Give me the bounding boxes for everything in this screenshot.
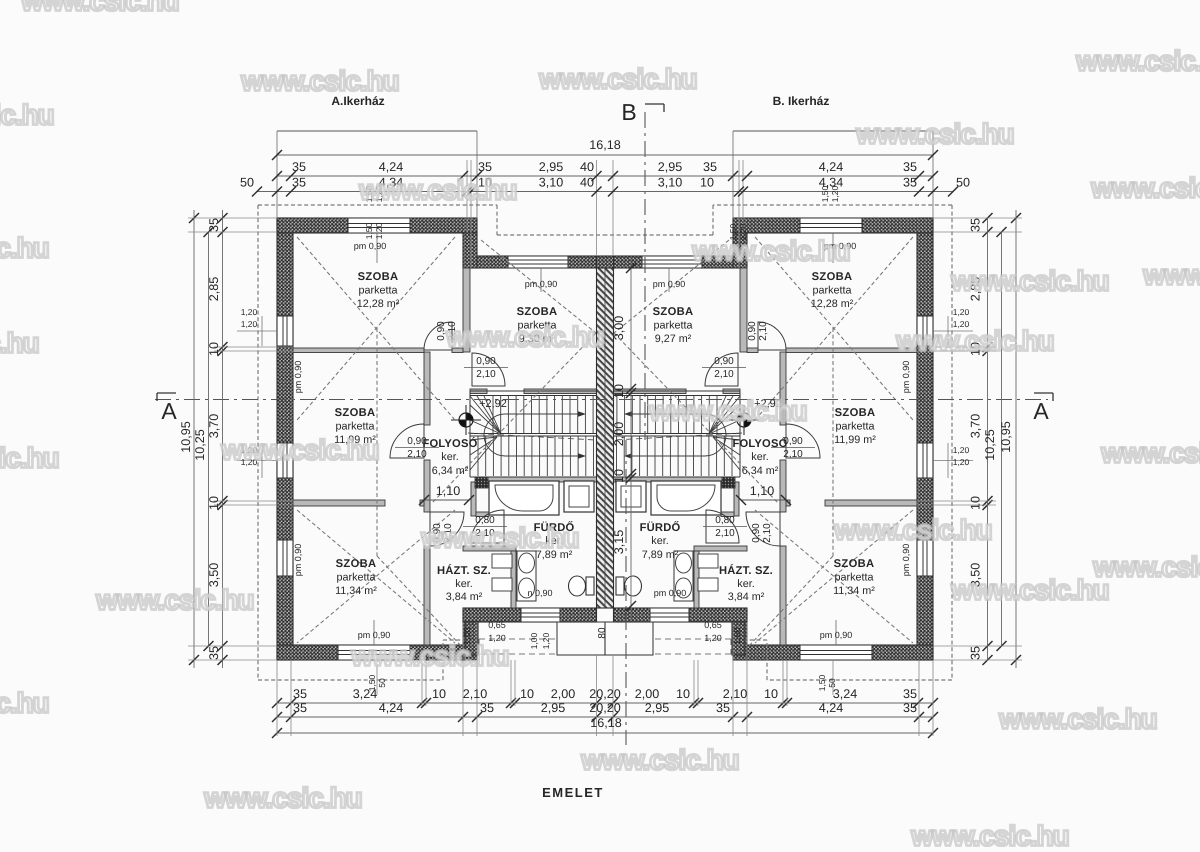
svg-text:www.csic.hu: www.csic.hu	[950, 265, 1109, 296]
svg-text:12,28 m²: 12,28 m²	[357, 298, 400, 310]
svg-text:10,95: 10,95	[999, 421, 1013, 453]
svg-text:FÜRDŐ: FÜRDŐ	[640, 521, 681, 534]
svg-text:n 0,90: n 0,90	[527, 588, 552, 598]
right dimension columns	[987, 218, 989, 660]
svg-text:pm 0,90: pm 0,90	[354, 241, 387, 251]
roof overhang dashed	[258, 204, 497, 206]
svg-text:1,20: 1,20	[374, 222, 384, 239]
svg-text:35: 35	[480, 701, 494, 715]
svg-text:1,20: 1,20	[830, 185, 840, 202]
svg-text:20,20: 20,20	[589, 701, 621, 715]
svg-text:www.csic.hu: www.csic.hu	[950, 574, 1109, 605]
svg-text:3,10: 3,10	[539, 176, 564, 190]
svg-text:35: 35	[903, 687, 917, 701]
svg-text:10: 10	[700, 176, 714, 190]
svg-text:1,20: 1,20	[241, 319, 258, 329]
svg-text:www.csic.hu: www.csic.hu	[20, 0, 179, 16]
svg-text:3,15: 3,15	[612, 530, 626, 555]
svg-text:1,20: 1,20	[953, 307, 970, 317]
svg-text:10: 10	[676, 687, 690, 701]
svg-text:1,00: 1,00	[732, 627, 742, 645]
svg-text:www.csic.hu: www.csic.hu	[420, 522, 579, 553]
svg-text:2,10: 2,10	[476, 369, 496, 380]
svg-text:www.csic.hu: www.csic.hu	[0, 442, 59, 473]
svg-text:FOLYOSÓ: FOLYOSÓ	[422, 437, 477, 450]
svg-text:SZOBA: SZOBA	[335, 407, 376, 419]
svg-text:2,10: 2,10	[783, 449, 803, 460]
svg-text:3,10: 3,10	[658, 176, 683, 190]
svg-text:50: 50	[377, 678, 387, 688]
svg-text:www.csic.hu: www.csic.hu	[998, 703, 1157, 734]
svg-text:3,84 m²: 3,84 m²	[446, 591, 483, 603]
svg-text:10: 10	[207, 496, 221, 510]
svg-text:4,24: 4,24	[379, 701, 404, 715]
svg-text:80: 80	[597, 627, 608, 639]
svg-text:35: 35	[969, 218, 983, 232]
svg-text:35: 35	[716, 701, 730, 715]
svg-text:2,00: 2,00	[635, 687, 660, 701]
svg-text:6,34 m²: 6,34 m²	[742, 465, 779, 477]
svg-text:pm 0,90: pm 0,90	[901, 544, 911, 577]
svg-text:1,50: 1,50	[367, 674, 377, 691]
svg-text:HÁZT. SZ.: HÁZT. SZ.	[437, 564, 491, 577]
svg-text:B. Ikerház: B. Ikerház	[773, 94, 830, 108]
svg-text:FOLYOSÓ: FOLYOSÓ	[732, 437, 787, 450]
svg-text:A: A	[161, 398, 177, 424]
svg-text:parketta: parketta	[336, 572, 375, 584]
svg-text:B: B	[621, 99, 636, 125]
svg-text:parketta: parketta	[335, 421, 374, 433]
svg-text:9,27 m²: 9,27 m²	[655, 333, 692, 345]
svg-text:www.csic.hu: www.csic.hu	[0, 232, 49, 263]
svg-text:10: 10	[432, 687, 446, 701]
svg-text:10,25: 10,25	[983, 429, 997, 461]
svg-text:0,65: 0,65	[488, 620, 506, 630]
left dimension columns	[222, 210, 224, 668]
svg-text:www.csic.hu: www.csic.hu	[910, 820, 1069, 847]
svg-text:www.csic.hu: www.csic.hu	[1090, 172, 1200, 203]
B section line	[644, 112, 646, 440]
svg-text:10: 10	[612, 469, 626, 483]
svg-text:ker.: ker.	[651, 535, 668, 547]
svg-text:EMELET: EMELET	[542, 785, 604, 800]
terrace	[557, 622, 605, 655]
doors house A	[424, 322, 452, 350]
toilet	[569, 576, 586, 596]
party wall	[597, 256, 614, 268]
svg-text:2,00: 2,00	[612, 422, 626, 447]
svg-text:www.csic.hu: www.csic.hu	[691, 235, 850, 266]
top extension boxes	[277, 130, 477, 132]
svg-text:www.csic.hu: www.csic.hu	[445, 321, 604, 352]
svg-text:10: 10	[207, 342, 221, 356]
svg-text:35: 35	[207, 646, 221, 660]
svg-text:www.csic.hu: www.csic.hu	[895, 325, 1054, 356]
svg-text:1,50: 1,50	[364, 222, 374, 239]
svg-text:A: A	[1033, 398, 1049, 424]
svg-text:35: 35	[292, 160, 306, 174]
svg-text:www.csic.hu: www.csic.hu	[538, 63, 697, 94]
svg-text:11,99 m²: 11,99 m²	[834, 434, 876, 446]
svg-text:parketta: parketta	[358, 285, 397, 297]
svg-text:20,20: 20,20	[589, 687, 621, 701]
interior dimension chain	[630, 256, 632, 620]
svg-text:2,10: 2,10	[762, 523, 773, 543]
svg-text:parketta: parketta	[653, 320, 692, 332]
svg-text:50: 50	[956, 176, 970, 190]
svg-text:1,50: 1,50	[817, 674, 827, 691]
level mark	[459, 413, 473, 427]
svg-text:10: 10	[612, 384, 626, 398]
svg-text:ker.: ker.	[441, 451, 458, 463]
svg-text:2,95: 2,95	[539, 160, 564, 174]
svg-text:35: 35	[903, 701, 917, 715]
svg-text:2,95: 2,95	[645, 701, 670, 715]
svg-text:50: 50	[827, 678, 837, 688]
svg-text:SZOBA: SZOBA	[653, 306, 694, 318]
svg-text:ker.: ker.	[455, 578, 472, 590]
svg-text:www.csic.hu: www.csic.hu	[580, 744, 739, 775]
shower	[564, 481, 594, 512]
windows house A	[348, 217, 410, 233]
svg-text:2,10: 2,10	[463, 687, 488, 701]
svg-text:1,20: 1,20	[241, 307, 258, 317]
svg-text:www.csic.hu: www.csic.hu	[0, 99, 54, 130]
svg-text:35: 35	[292, 176, 306, 190]
svg-text:2,10: 2,10	[758, 321, 769, 341]
svg-text:35: 35	[293, 701, 307, 715]
svg-text:pm 0,90: pm 0,90	[654, 588, 687, 598]
svg-text:10,25: 10,25	[193, 429, 207, 461]
svg-text:7,89 m²: 7,89 m²	[642, 549, 679, 561]
svg-text:2,10: 2,10	[723, 687, 748, 701]
bathtub	[489, 481, 559, 515]
svg-text:parketta: parketta	[812, 285, 851, 297]
svg-text:0,90: 0,90	[751, 523, 762, 543]
svg-text:1,50: 1,50	[820, 185, 830, 202]
svg-text:50: 50	[240, 176, 254, 190]
svg-text:2,95: 2,95	[541, 701, 566, 715]
svg-text:3,24: 3,24	[833, 687, 858, 701]
svg-text:pm 0,90: pm 0,90	[358, 630, 391, 640]
svg-text:SZOBA: SZOBA	[812, 271, 853, 283]
svg-text:www.csic.hu: www.csic.hu	[855, 118, 1014, 149]
A section line	[155, 399, 1048, 401]
svg-text:SZOBA: SZOBA	[834, 558, 875, 570]
svg-text:35: 35	[293, 687, 307, 701]
svg-text:2,85: 2,85	[207, 277, 221, 302]
roof hips	[297, 237, 455, 420]
interior partitions house A	[293, 348, 424, 353]
svg-text:0,90: 0,90	[407, 436, 427, 447]
svg-text:3,00: 3,00	[612, 316, 626, 341]
svg-text:www.csic.hu: www.csic.hu	[1142, 259, 1200, 290]
svg-text:www.csic.hu: www.csic.hu	[1100, 437, 1200, 468]
svg-text:www.csic.hu: www.csic.hu	[0, 687, 49, 718]
svg-text:6,34 m²: 6,34 m²	[432, 465, 469, 477]
svg-text:www.csic.hu: www.csic.hu	[350, 640, 509, 671]
svg-text:16,18: 16,18	[590, 716, 622, 730]
svg-text:www.csic.hu: www.csic.hu	[240, 65, 399, 96]
svg-text:10,95: 10,95	[179, 421, 193, 453]
exterior walls house A	[277, 218, 293, 660]
top dimension rows	[277, 154, 933, 156]
svg-text:2,00: 2,00	[551, 687, 576, 701]
svg-text:1,20: 1,20	[953, 457, 970, 467]
svg-text:35: 35	[207, 218, 221, 232]
svg-text:www.csic.hu: www.csic.hu	[95, 584, 254, 615]
svg-text:www.csic.hu: www.csic.hu	[1075, 45, 1200, 76]
svg-text:0,90: 0,90	[714, 356, 734, 367]
svg-text:parketta: parketta	[835, 421, 874, 433]
svg-text:SZOBA: SZOBA	[517, 306, 558, 318]
svg-text:www.csic.hu: www.csic.hu	[648, 395, 807, 426]
svg-text:2,10: 2,10	[715, 528, 735, 539]
svg-text:3,70: 3,70	[207, 414, 221, 439]
svg-text:pm 0,90: pm 0,90	[525, 279, 558, 289]
svg-text:12,28 m²: 12,28 m²	[811, 298, 854, 310]
svg-text:www.csic.hu: www.csic.hu	[833, 514, 992, 545]
svg-text:1,20: 1,20	[541, 632, 551, 649]
svg-text:10: 10	[764, 687, 778, 701]
svg-text:1,20: 1,20	[953, 445, 970, 455]
svg-text:35: 35	[969, 646, 983, 660]
svg-text:SZOBA: SZOBA	[835, 407, 876, 419]
svg-text:ker.: ker.	[751, 451, 768, 463]
svg-text:16,18: 16,18	[589, 138, 621, 152]
svg-text:40: 40	[580, 176, 594, 190]
svg-text:11,34 m²: 11,34 m²	[335, 585, 377, 597]
svg-text:35: 35	[903, 160, 917, 174]
svg-text:11,34 m²: 11,34 m²	[833, 585, 875, 597]
stair house A	[492, 396, 494, 433]
svg-text:www.csic.hu: www.csic.hu	[0, 327, 39, 358]
svg-text:parketta: parketta	[834, 572, 873, 584]
bottom dimension rows	[277, 702, 933, 704]
svg-text:pm 0,90: pm 0,90	[653, 279, 686, 289]
svg-text:www.csic.hu: www.csic.hu	[220, 434, 379, 465]
svg-text:0,90: 0,90	[783, 436, 803, 447]
svg-text:4,24: 4,24	[819, 160, 844, 174]
svg-text:40: 40	[580, 160, 594, 174]
washer/dryer	[517, 551, 536, 601]
svg-text:2,10: 2,10	[407, 449, 427, 460]
svg-text:35: 35	[903, 176, 917, 190]
svg-text:4,24: 4,24	[379, 160, 404, 174]
svg-text:1,10: 1,10	[750, 484, 775, 498]
svg-text:1,20: 1,20	[704, 633, 722, 643]
svg-text:HÁZT. SZ.: HÁZT. SZ.	[719, 564, 773, 577]
svg-text:0,90: 0,90	[476, 356, 496, 367]
svg-text:pm 0,90: pm 0,90	[901, 361, 911, 394]
svg-text:1,00: 1,00	[529, 632, 539, 649]
svg-text:pm 0,90: pm 0,90	[293, 544, 303, 577]
svg-text:35: 35	[703, 160, 717, 174]
svg-text:pm 0,90: pm 0,90	[820, 630, 853, 640]
svg-text:+2,92: +2,92	[479, 398, 507, 410]
svg-text:0,65: 0,65	[704, 620, 722, 630]
svg-text:0,90: 0,90	[747, 321, 758, 341]
svg-text:2,95: 2,95	[658, 160, 683, 174]
svg-text:3,84 m²: 3,84 m²	[728, 591, 765, 603]
svg-text:3,70: 3,70	[969, 414, 983, 439]
svg-text:pm 0,90: pm 0,90	[293, 361, 303, 394]
svg-text:www.csic.hu: www.csic.hu	[203, 782, 362, 813]
svg-text:10: 10	[969, 496, 983, 510]
svg-text:35: 35	[478, 160, 492, 174]
svg-text:0,80: 0,80	[715, 515, 735, 526]
svg-text:SZOBA: SZOBA	[358, 271, 399, 283]
svg-text:www.csic.hu: www.csic.hu	[358, 174, 517, 205]
svg-text:SZOBA: SZOBA	[336, 558, 377, 570]
svg-text:ker.: ker.	[737, 578, 754, 590]
svg-text:10: 10	[520, 687, 534, 701]
svg-text:1,10: 1,10	[436, 484, 461, 498]
svg-text:2,10: 2,10	[714, 369, 734, 380]
svg-text:4,24: 4,24	[819, 701, 844, 715]
